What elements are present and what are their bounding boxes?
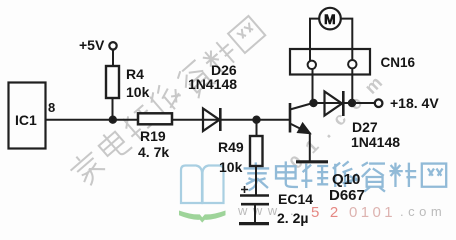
svg-text:+5V: +5V	[79, 37, 105, 53]
svg-text:Q10: Q10	[332, 171, 360, 188]
svg-text:0101: 0101	[349, 204, 396, 221]
diode D26	[203, 109, 220, 132]
svg-text:D667: D667	[329, 187, 365, 204]
resistor R19	[138, 113, 172, 124]
svg-text:EC14: EC14	[278, 191, 313, 207]
svg-text:IC1: IC1	[15, 112, 37, 128]
svg-text:2. 2µ: 2. 2µ	[277, 210, 308, 226]
node junction C (collector/CN16)	[310, 100, 316, 106]
wire motor left lead	[310, 19, 319, 61]
wire cap to ground	[254, 204, 256, 223]
wire motor right lead	[341, 19, 352, 60]
svg-text:M: M	[324, 11, 336, 27]
ground under emitter	[296, 160, 328, 163]
CN16 right pin	[348, 60, 356, 68]
wire +5V to R4	[112, 50, 114, 67]
ground under cap	[239, 222, 269, 225]
wire collector node to +18.4V terminal	[314, 102, 376, 104]
wire CN16 right pin down	[351, 69, 353, 103]
diode D27	[325, 92, 343, 116]
svg-text:1N4148: 1N4148	[188, 76, 237, 92]
svg-text:D27: D27	[352, 119, 378, 135]
svg-text:8: 8	[48, 100, 55, 115]
node junction A (R4/R19)	[110, 117, 116, 123]
gray diagonal watermark 01.com	[286, 64, 395, 173]
IC1 box	[9, 83, 46, 149]
wire R49 to cap	[255, 166, 257, 195]
svg-text:10k: 10k	[219, 159, 243, 175]
svg-text:01.com: 01.com	[286, 64, 395, 173]
wire emitter to ground	[309, 133, 311, 162]
resistor R49	[250, 136, 263, 166]
svg-text:10k: 10k	[126, 84, 150, 100]
svg-text:R49: R49	[218, 139, 244, 155]
plus sign of cap	[241, 186, 248, 193]
node junction D (D27 cathode/CN16)	[349, 100, 355, 106]
capacitor EC14	[240, 194, 269, 197]
motor circle	[319, 8, 341, 30]
book logo	[179, 166, 226, 223]
svg-text:R19: R19	[140, 128, 166, 144]
node junction B (D26/R49/base)	[253, 117, 259, 123]
svg-text:R4: R4	[126, 66, 144, 82]
CN16 box	[290, 49, 370, 75]
wire collector node up to CN16 pin	[312, 69, 314, 103]
gray diagonal watermark 家电维修资料网	[66, 16, 265, 189]
svg-text:+18. 4V: +18. 4V	[390, 95, 439, 111]
CN16 left pin	[308, 61, 316, 69]
svg-text:CN16: CN16	[381, 55, 416, 70]
+18.4V terminal	[375, 99, 383, 107]
bottom url	[237, 203, 446, 221]
svg-text:.com: .com	[400, 204, 446, 219]
svg-text:52: 52	[311, 204, 349, 221]
resistor R4	[106, 66, 119, 98]
svg-text:4. 7k: 4. 7k	[138, 144, 169, 160]
transistor Q10	[289, 103, 292, 133]
wire R4 to node	[112, 98, 114, 120]
teal watermark 家电维修资料网	[244, 161, 447, 191]
wire node to R49	[256, 120, 258, 136]
+5V terminal	[109, 42, 116, 49]
svg-text:1N4148: 1N4148	[351, 134, 400, 150]
wire pin8 to base	[46, 119, 291, 121]
